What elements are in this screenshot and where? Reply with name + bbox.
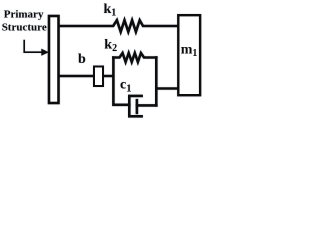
svg-text:Structure: Structure bbox=[2, 22, 47, 34]
svg-text:k1: k1 bbox=[104, 2, 117, 19]
svg-text:b: b bbox=[78, 52, 86, 67]
svg-text:k2: k2 bbox=[104, 38, 117, 55]
svg-text:c1: c1 bbox=[120, 78, 131, 95]
svg-text:Primary: Primary bbox=[4, 9, 44, 21]
